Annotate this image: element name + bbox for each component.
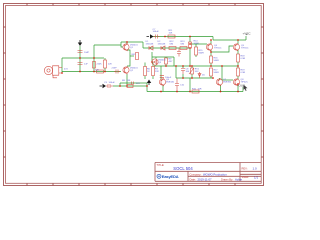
resistor R11 inline top xyxy=(168,35,175,38)
capacitor C10 under y78 xyxy=(175,79,179,92)
wire Q4-Q5 link xyxy=(211,46,233,52)
svg-text:100uF: 100uF xyxy=(165,77,172,79)
svg-text:560R: 560R xyxy=(214,72,220,74)
transistor Q5 xyxy=(233,44,239,52)
resistor R16 xyxy=(210,56,213,63)
title block texts xyxy=(157,163,259,181)
svg-text:1.0: 1.0 xyxy=(253,167,258,171)
wire Q5 column xyxy=(237,40,239,92)
svg-text:ZD: ZD xyxy=(202,75,205,77)
capacitor C6 inline y71.5 xyxy=(114,70,120,74)
svg-text:MJE350: MJE350 xyxy=(223,81,232,83)
svg-text:1uF: 1uF xyxy=(84,63,88,65)
ground left of C3 xyxy=(100,84,107,88)
svg-text:22K: 22K xyxy=(108,63,112,65)
transistor Q7 MJE350 xyxy=(216,79,222,87)
transistor Q6 MJE340 xyxy=(159,79,165,87)
resistor R18 xyxy=(237,54,240,62)
wire y45 to Q1 base xyxy=(94,44,121,46)
ruler tick marks xyxy=(3,3,264,186)
wire x94 branch down xyxy=(93,58,95,72)
svg-text:10R: 10R xyxy=(198,88,202,90)
svg-text:Company:: Company: xyxy=(190,172,202,176)
svg-text:100uF: 100uF xyxy=(109,82,116,84)
capacitor C9 bootstrap xyxy=(177,49,181,57)
wire bias cap branch xyxy=(182,66,184,78)
capacitor C4 inline y83 xyxy=(132,82,134,85)
svg-text:TIP41C: TIP41C xyxy=(241,47,249,49)
wire R9 hang xyxy=(165,57,167,66)
svg-text:WOWO Production: WOWO Production xyxy=(203,172,227,176)
net flag OUT xyxy=(239,83,246,87)
wire tail resistor stub xyxy=(130,55,134,57)
svg-text:100R: 100R xyxy=(194,43,200,45)
wire R15 hang xyxy=(195,44,197,57)
wire cap C2 branch x80 upper xyxy=(79,46,81,58)
wire Q2 collector down xyxy=(126,74,128,86)
wire x143 drop to diode row xyxy=(142,42,144,48)
junction dots xyxy=(61,36,239,93)
wire MJE340 column xyxy=(161,66,163,92)
ground symbols black xyxy=(78,34,154,88)
svg-text:+VCC: +VCC xyxy=(243,32,252,36)
wires xyxy=(62,36,246,92)
wire VAS node x152 xyxy=(152,52,153,62)
resistor R17 xyxy=(210,68,213,76)
svg-text:33K: 33K xyxy=(95,69,99,71)
wire Q3 pins xyxy=(155,57,157,66)
capacitor C2 104P xyxy=(78,51,83,53)
transistor Q4 xyxy=(206,44,212,52)
svg-text:Sheet:: Sheet: xyxy=(242,175,250,179)
EasyEDA logo xyxy=(157,174,179,179)
svg-text:104P: 104P xyxy=(84,52,90,54)
resistor R12 inline xyxy=(169,47,176,50)
resistor R1 inline xyxy=(97,70,104,73)
svg-text:10K: 10K xyxy=(169,32,173,34)
blue value labels xyxy=(64,29,249,91)
title block frame xyxy=(155,163,261,182)
trimpot RV1 xyxy=(189,68,194,74)
wire feedback verticals xyxy=(120,83,147,92)
capacitor C1 1uF xyxy=(78,63,83,65)
wire y44 Q4 base xyxy=(190,43,207,45)
resistor R9 xyxy=(165,58,168,64)
resistor R15 xyxy=(195,47,198,55)
wire x174 corner xyxy=(173,57,175,66)
resistor R2 xyxy=(104,60,107,68)
wire cap C1 branch x80 lower xyxy=(79,58,81,72)
wire x176 drop xyxy=(175,66,177,78)
svg-text:Achie: Achie xyxy=(235,177,242,181)
sheet outer border xyxy=(4,4,264,186)
svg-text:TIP41C: TIP41C xyxy=(214,47,222,49)
wire x121 vertical xyxy=(121,42,123,47)
wire top rail right y40 xyxy=(213,39,246,41)
ground left of C7 xyxy=(147,34,154,38)
components red xyxy=(44,35,239,94)
wire y57 rail xyxy=(152,56,174,58)
svg-text:TITLE:: TITLE: xyxy=(157,163,165,167)
svg-text:223P: 223P xyxy=(112,68,118,70)
svg-text:22K: 22K xyxy=(155,71,159,73)
svg-text:SOCL 504: SOCL 504 xyxy=(173,166,193,171)
wire top rail step xyxy=(212,37,214,41)
mouse cursor xyxy=(243,84,247,91)
transistor Q8 xyxy=(233,79,239,87)
wire x222 drop xyxy=(221,66,223,80)
resistor R19 xyxy=(237,68,240,76)
wire vcc flag stem xyxy=(245,36,247,40)
svg-text:33K: 33K xyxy=(127,80,131,82)
resistor R10 inline rail xyxy=(192,90,199,93)
transistor Q2 2N5401 xyxy=(123,67,129,75)
wire x190 lower drop xyxy=(189,78,191,92)
resistor R14 x190 xyxy=(189,42,192,48)
wire feedback parallel row y83 xyxy=(120,82,147,84)
svg-text:0.5R: 0.5R xyxy=(241,72,246,74)
connector J1 input jack xyxy=(44,66,62,78)
resistor R3 220K xyxy=(93,62,96,69)
wire feedback row y86 xyxy=(113,85,147,87)
svg-text:1/1: 1/1 xyxy=(254,175,259,179)
svg-text:560R: 560R xyxy=(214,60,220,62)
ground below R6 R7 xyxy=(147,80,151,86)
zener Z1 xyxy=(198,72,201,78)
wire diff emitters link xyxy=(127,50,130,66)
wire trimpot branch xyxy=(191,66,193,78)
wire top rail left y36.5 xyxy=(152,36,213,38)
net flag +VCC xyxy=(243,32,252,36)
wire Q7 pins xyxy=(220,78,221,92)
svg-text:2019-11-07: 2019-11-07 xyxy=(198,177,213,181)
diode D1 xyxy=(149,46,153,50)
resistor R6 xyxy=(144,67,147,76)
svg-text:100uF: 100uF xyxy=(153,31,160,33)
wire x94 branch up xyxy=(93,45,95,58)
resistor R7 xyxy=(152,67,155,76)
wire input lower rail y71.5 xyxy=(62,71,121,73)
svg-text:REV:: REV: xyxy=(242,166,248,170)
wire bias lower rail y78 xyxy=(176,77,213,79)
wire R2 column x105 xyxy=(104,58,106,72)
wire Q1 collector xyxy=(126,42,128,44)
wire out flag stem xyxy=(242,87,244,92)
wire x190 vertical xyxy=(189,37,191,67)
capacitor C5 xyxy=(160,75,164,77)
sheet inner border xyxy=(6,6,262,184)
svg-text:EasyEDA: EasyEDA xyxy=(162,174,179,179)
wire y42 rail xyxy=(121,41,143,43)
svg-text:560R: 560R xyxy=(199,52,205,54)
diode D2 xyxy=(161,46,165,50)
capacitor C8 bias xyxy=(181,69,185,75)
wire Q6 base from left xyxy=(222,79,233,81)
wire load resistors column xyxy=(145,63,153,80)
resistor R5 tail xyxy=(136,53,139,60)
wire mid rail y66 xyxy=(154,65,238,67)
ground above C2 xyxy=(78,40,82,46)
capacitor C3 feedback xyxy=(106,84,113,88)
wire jack vertical xyxy=(61,58,63,73)
wire Q4 column xyxy=(210,40,212,78)
resistor R8 inline y86 xyxy=(127,85,133,88)
resistor R13 inline xyxy=(180,47,187,50)
capacitor C7 100uF xyxy=(154,35,160,39)
svg-text:0.5R: 0.5R xyxy=(241,58,246,60)
svg-text:1N4148: 1N4148 xyxy=(146,44,154,46)
transistor Q3 xyxy=(152,59,158,65)
wire bottom rail y91.5 xyxy=(147,91,243,93)
svg-text:MJE340: MJE340 xyxy=(166,81,175,83)
svg-text:TIP42C: TIP42C xyxy=(241,81,249,83)
svg-text:220K: 220K xyxy=(97,63,103,65)
svg-text:Drawn By:: Drawn By: xyxy=(221,177,233,181)
wire diode row y48 xyxy=(143,47,190,49)
svg-text:1N4148: 1N4148 xyxy=(158,44,166,46)
svg-text:Date:: Date: xyxy=(190,177,196,181)
transistor Q1 2N5401 xyxy=(123,44,129,52)
wire input top rail y58 xyxy=(62,57,104,59)
